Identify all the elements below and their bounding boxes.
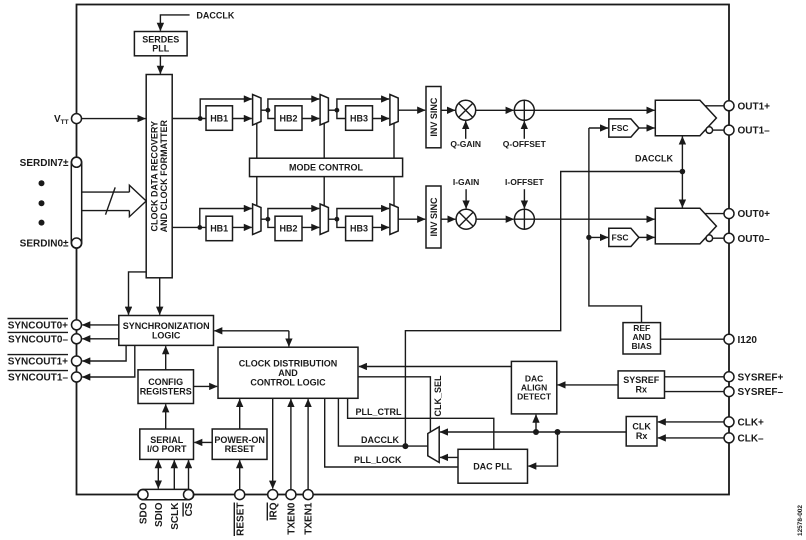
- wire bypass lower HB1: [200, 209, 252, 228]
- wire SYNCOUT1+: [82, 345, 126, 361]
- REF AND BIAS box: [623, 323, 661, 354]
- pin OUT0-: [724, 233, 734, 243]
- wire HB3 upper out: [373, 118, 390, 120]
- multiplier Q-GAIN: [456, 100, 476, 120]
- svg-text:I-GAIN: I-GAIN: [453, 177, 479, 187]
- wire jog to HB3 upper: [337, 110, 346, 118]
- wire OUT1+: [705, 105, 724, 107]
- svg-text:SYNCOUT1–: SYNCOUT1–: [8, 373, 68, 384]
- multiplier I-GAIN: [456, 209, 476, 229]
- wire DACCLK routing: [405, 172, 682, 447]
- wire SCLK: [173, 460, 175, 489]
- clock data recovery block: [146, 75, 172, 278]
- wire CDR to HB1 upper: [172, 118, 206, 120]
- wire CDR to sync right: [159, 278, 161, 315]
- pin SYNCOUT0-: [72, 334, 82, 344]
- DAC ALIGN DETECT box: [511, 361, 556, 414]
- bus slash: [106, 187, 116, 214]
- wire mux2 lower out: [328, 218, 337, 220]
- wire into FSC0: [589, 236, 608, 238]
- node CLK branch pll: [555, 429, 561, 435]
- svg-text:I-OFFSET: I-OFFSET: [505, 177, 545, 187]
- svg-text:INV SINC: INV SINC: [429, 197, 439, 237]
- wire CLK_SEL: [358, 377, 430, 432]
- svg-text:VTT: VTT: [54, 114, 69, 126]
- wire REF to I120: [661, 338, 725, 340]
- wire CLK to mux: [440, 431, 626, 433]
- svg-text:Q-OFFSET: Q-OFFSET: [503, 139, 547, 149]
- pin SYNCOUT1-: [72, 372, 82, 382]
- svg-text:BIAS: BIAS: [632, 341, 653, 351]
- pin TXEN1: [303, 490, 313, 500]
- mux M2 upper: [320, 95, 328, 126]
- svg-text:HB2: HB2: [279, 113, 297, 123]
- wire I-GAIN arrow: [465, 189, 467, 208]
- CLK Rx box: [626, 417, 657, 447]
- wire DACCLK to DAC0: [681, 172, 683, 208]
- pin IRQ: [268, 490, 278, 500]
- svg-text:SYSREF–: SYSREF–: [738, 387, 784, 398]
- wire multiplier to adder upper: [476, 109, 514, 111]
- node after mux2 upper: [335, 108, 340, 113]
- svg-text:SERDIN0±: SERDIN0±: [20, 239, 69, 250]
- mux M2 lower: [320, 204, 328, 235]
- HB3 upper: [346, 106, 373, 131]
- svg-text:CLOCK DATA RECOVERY: CLOCK DATA RECOVERY: [149, 121, 159, 232]
- svg-text:SDO: SDO: [139, 502, 150, 524]
- wire INV SINC to multiplier upper: [441, 109, 455, 111]
- pin SYSREF+: [724, 372, 734, 382]
- svg-text:PLL_LOCK: PLL_LOCK: [354, 455, 402, 465]
- wire Q-GAIN arrow: [465, 121, 467, 139]
- INV SINC upper: [426, 87, 441, 148]
- svg-text:CLK–: CLK–: [738, 434, 765, 445]
- svg-text:FSC: FSC: [612, 233, 629, 243]
- wire TXEN1: [307, 399, 309, 489]
- wire sync feed to clock dist: [288, 331, 290, 347]
- CONFIG REGISTERS box: [138, 370, 194, 404]
- pin OUT1+: [724, 101, 734, 111]
- svg-text:DACCLK: DACCLK: [635, 154, 673, 164]
- svg-text:RESET: RESET: [235, 503, 246, 536]
- wire PLL_LOCK: [325, 398, 458, 467]
- wire CS: [188, 460, 190, 489]
- wire OUT1-: [713, 129, 725, 131]
- wire POR to serial port: [194, 441, 212, 443]
- node after mux2 lower: [335, 217, 340, 222]
- wire jog to HB3 lower: [337, 219, 346, 227]
- wire HB2 upper out: [302, 118, 319, 120]
- wire CLK-: [658, 437, 724, 439]
- wire SDIO bidirectional: [157, 460, 159, 488]
- mux M3 lower: [390, 204, 398, 235]
- wire POR to clock dist: [239, 399, 241, 429]
- wire INV SINC to multiplier lower: [441, 218, 455, 220]
- svg-text:CLK_SEL: CLK_SEL: [433, 375, 443, 417]
- wire mux3 lower to INV SINC: [398, 218, 425, 220]
- svg-text:HB2: HB2: [279, 224, 297, 234]
- wire jog to HB2 lower: [268, 219, 275, 227]
- wire CDR to HB1 lower: [172, 226, 206, 228]
- wire CLK+: [658, 421, 724, 423]
- svg-text:I120: I120: [738, 335, 758, 346]
- svg-text:SCLK: SCLK: [170, 502, 181, 530]
- svg-text:FSC: FSC: [612, 123, 629, 133]
- svg-text:LOGIC: LOGIC: [152, 330, 181, 340]
- wire SYSREF-: [665, 391, 725, 393]
- svg-text:12578-002: 12578-002: [797, 505, 804, 536]
- svg-text:DACCLK: DACCLK: [361, 435, 399, 445]
- wire HB1 upper out: [233, 118, 252, 120]
- FSC0: [609, 228, 639, 246]
- mode control links lower: [257, 177, 394, 206]
- DAC0 core: [655, 208, 716, 244]
- SYSREF Rx box: [618, 371, 664, 398]
- svg-text:TXEN1: TXEN1: [304, 502, 315, 535]
- wire CLK to detect: [535, 415, 537, 432]
- svg-text:I/O PORT: I/O PORT: [147, 444, 187, 454]
- POWER-ON RESET box: [212, 429, 267, 459]
- serial pin capsule: [138, 489, 194, 499]
- wire SYNCOUT0+: [82, 324, 119, 326]
- node after mux1 lower: [266, 217, 271, 222]
- serdes bus block arrow: [82, 185, 147, 217]
- wire bypass lower HB2: [268, 209, 319, 220]
- adder Q-OFFSET: [514, 100, 534, 120]
- wire FSC0 to DAC0: [639, 236, 655, 238]
- HB2 upper: [275, 106, 302, 131]
- svg-text:AND CLOCK FORMATTER: AND CLOCK FORMATTER: [159, 120, 169, 233]
- mux M3 upper: [390, 95, 398, 126]
- DAC1 core: [655, 100, 716, 136]
- wire mux1 upper out: [261, 109, 268, 111]
- wire bypass upper HB2: [268, 99, 319, 110]
- FSC1: [609, 119, 639, 137]
- node before HB1 lower: [197, 225, 202, 230]
- svg-text:SYNCOUT0–: SYNCOUT0–: [8, 334, 68, 345]
- svg-text:MODE CONTROL: MODE CONTROL: [289, 163, 363, 173]
- svg-text:DAC PLL: DAC PLL: [473, 462, 512, 472]
- svg-text:HB1: HB1: [210, 113, 228, 123]
- mode control links upper: [257, 123, 394, 158]
- wire SYNCOUT1-: [82, 345, 135, 377]
- wire DACCLK to DAC1: [681, 137, 683, 172]
- wire DAC PLL to mux: [440, 456, 458, 458]
- DAC1 inverter bubble: [706, 127, 713, 134]
- wire HB3 lower out: [373, 226, 390, 228]
- wire multiplier to adder lower: [476, 218, 514, 220]
- svg-text:CLK+: CLK+: [738, 418, 765, 429]
- wire CDR to sync left: [129, 272, 147, 315]
- svg-text:HB3: HB3: [350, 224, 368, 234]
- wire config to sync: [165, 346, 167, 370]
- DAC0 inverter bubble: [706, 235, 713, 242]
- SYNCHRONIZATION LOGIC box: [119, 316, 214, 346]
- wire into FSC1: [589, 127, 608, 129]
- pin I120: [724, 334, 734, 344]
- mux M1 upper: [253, 95, 261, 126]
- pin SYNCOUT1+: [72, 356, 82, 366]
- svg-text:SERDIN7±: SERDIN7±: [20, 158, 69, 169]
- HB2 lower: [275, 216, 302, 241]
- wire sync feed to sync logic: [214, 330, 289, 332]
- pin CS: [184, 490, 194, 500]
- pin SERDIN0: [72, 238, 82, 248]
- node DACCLK: [402, 443, 408, 449]
- HB3 lower: [346, 216, 373, 241]
- ellipsis dots: [39, 180, 45, 186]
- wire SERDES PLL to CDR: [159, 56, 161, 74]
- svg-text:HB3: HB3: [350, 113, 368, 123]
- svg-text:IRQ: IRQ: [268, 502, 279, 520]
- CLOCK DISTRIBUTION box: [218, 347, 358, 398]
- HB1 lower: [206, 216, 233, 241]
- pin SYSREF-: [724, 387, 734, 397]
- pin SDO: [138, 490, 148, 500]
- svg-text:OUT1–: OUT1–: [738, 126, 771, 137]
- wire config to clock dist: [194, 385, 218, 387]
- node CLK branch detect: [533, 429, 539, 435]
- svg-text:REGISTERS: REGISTERS: [140, 387, 192, 397]
- wire Q-OFFSET arrow: [523, 121, 525, 139]
- wire SYNCOUT0-: [82, 338, 119, 340]
- DAC PLL box: [458, 449, 528, 483]
- wire mux2 upper out: [328, 109, 337, 111]
- clock mux: [428, 427, 439, 463]
- MODE CONTROL box: [250, 158, 403, 176]
- svg-text:SYNCOUT0+: SYNCOUT0+: [8, 321, 68, 332]
- svg-text:PLL_CTRL: PLL_CTRL: [356, 407, 403, 417]
- node DACCLK mid: [680, 169, 686, 175]
- svg-text:OUT1+: OUT1+: [738, 101, 771, 112]
- wire DACCLK top input: [160, 15, 189, 31]
- svg-text:SDIO: SDIO: [154, 502, 165, 527]
- mux M1 lower: [253, 204, 261, 235]
- adder I-OFFSET: [514, 209, 534, 229]
- wire FSC feed net: [589, 128, 642, 323]
- wire PLL_CTRL: [348, 398, 494, 449]
- node before HB1 upper: [198, 116, 203, 121]
- SERDIN pin capsule: [71, 157, 81, 248]
- pin OUT0+: [724, 209, 734, 219]
- SERIAL I/O PORT box: [140, 429, 194, 459]
- svg-text:INV SINC: INV SINC: [429, 97, 439, 137]
- node after mux1 upper: [266, 108, 271, 113]
- svg-text:Rx: Rx: [636, 431, 648, 441]
- wire mux3 upper to INV SINC: [398, 109, 425, 111]
- wire jog to HB2 upper: [268, 110, 275, 118]
- wire HB1 lower out: [233, 226, 252, 228]
- wire OUT0+: [705, 213, 724, 215]
- svg-text:SYSREF+: SYSREF+: [738, 372, 784, 383]
- svg-text:DACCLK: DACCLK: [196, 10, 234, 20]
- wire SYSREF Rx to detect: [558, 384, 619, 386]
- svg-text:RESET: RESET: [225, 444, 256, 454]
- pin VTT: [72, 114, 82, 124]
- wire CLK to DAC PLL: [528, 432, 557, 466]
- wire IRQ: [272, 398, 274, 488]
- wire TXEN0: [290, 399, 292, 489]
- svg-text:OUT0–: OUT0–: [738, 234, 771, 245]
- wire bypass upper HB1: [200, 99, 252, 119]
- chip boundary: [77, 5, 730, 495]
- pin CLK-: [724, 433, 734, 443]
- wire HB2 lower out: [302, 226, 319, 228]
- wire mux1 lower out: [261, 218, 268, 220]
- HB1 upper: [206, 106, 233, 131]
- svg-text:OUT0+: OUT0+: [738, 209, 771, 220]
- wire bypass lower HB3: [337, 209, 389, 220]
- wire FSC1 to DAC1: [639, 127, 655, 129]
- pin TXEN0: [286, 490, 296, 500]
- wire I-OFFSET arrow: [523, 189, 525, 208]
- svg-text:DETECT: DETECT: [517, 392, 552, 402]
- svg-text:CS: CS: [184, 502, 195, 516]
- svg-text:Rx: Rx: [636, 384, 648, 394]
- svg-text:SYNCOUT1+: SYNCOUT1+: [8, 357, 68, 368]
- INV SINC lower: [426, 186, 441, 248]
- wire adder to DAC0: [534, 218, 654, 220]
- svg-text:TXEN0: TXEN0: [287, 502, 298, 535]
- pin RESET: [235, 490, 245, 500]
- wire OUT0-: [713, 237, 725, 239]
- svg-text:Q-GAIN: Q-GAIN: [450, 139, 481, 149]
- wire bypass upper HB3: [337, 99, 389, 110]
- SERDES PLL U-PLL: [134, 32, 187, 56]
- svg-text:HB1: HB1: [210, 224, 228, 234]
- wire serial port to config: [165, 404, 167, 429]
- wire SYSREF+: [665, 376, 725, 378]
- svg-text:CONTROL LOGIC: CONTROL LOGIC: [250, 377, 326, 387]
- wire RESET: [239, 460, 241, 489]
- pin SYNCOUT0+: [72, 320, 82, 330]
- wire VTT to CDR: [82, 118, 146, 120]
- svg-text:PLL: PLL: [152, 44, 170, 54]
- pin SERDIN7: [72, 157, 82, 167]
- node FSC feed lower: [586, 235, 591, 240]
- wire clock dist feedback: [359, 366, 512, 368]
- pin CLK+: [724, 417, 734, 427]
- wire DACCLK mux output: [338, 398, 427, 446]
- wire adder to DAC1: [534, 109, 654, 111]
- pin OUT1-: [724, 125, 734, 135]
